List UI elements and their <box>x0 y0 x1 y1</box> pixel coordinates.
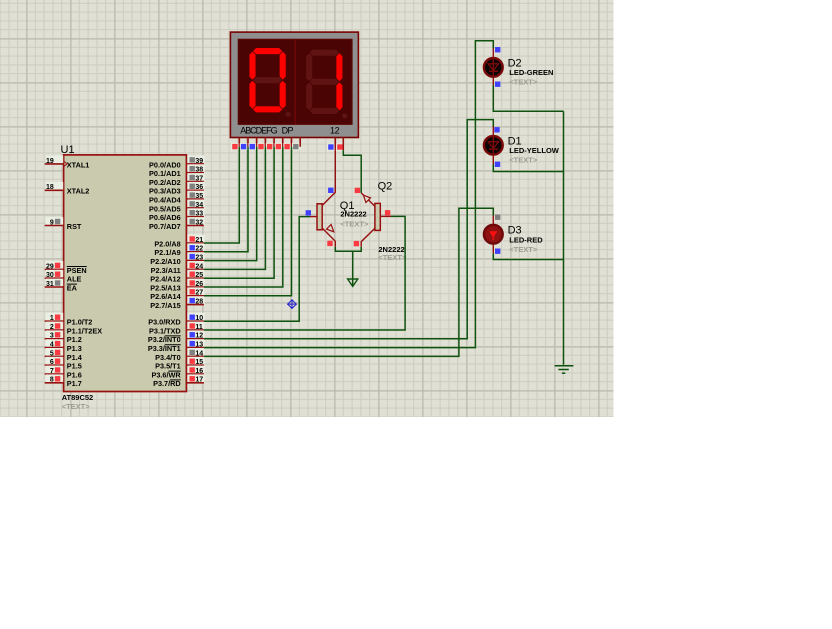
display pin 2 <box>336 138 344 151</box>
D2 text placeholder <box>509 78 538 87</box>
D3 reference label <box>508 224 522 236</box>
svg-text:P1.0/T2: P1.0/T2 <box>67 318 93 327</box>
wire D2 cathode to ground bus <box>493 85 563 111</box>
svg-text:19: 19 <box>46 158 54 165</box>
svg-text:3: 3 <box>50 333 54 340</box>
wire Q1 emitter / Q2 collector to ground node <box>335 247 361 252</box>
U1 pin 8 (P1.7) <box>45 374 82 388</box>
svg-text:17: 17 <box>195 377 203 384</box>
svg-text:<TEXT>: <TEXT> <box>509 78 538 87</box>
wire U1 P3.4 to D3 anode <box>204 208 493 356</box>
svg-text:35: 35 <box>195 193 203 200</box>
wire display C to U1 P2.2 <box>204 147 257 261</box>
wire D3 cathode to ground bus <box>493 253 563 259</box>
U1 pin 32 (P0.7/AD7) <box>149 217 205 231</box>
svg-text:P2.3/A11: P2.3/A11 <box>151 266 181 275</box>
U1 pin 5 (P1.4) <box>45 348 83 362</box>
svg-text:P2.4/A12: P2.4/A12 <box>150 275 180 284</box>
display digit 1 showing 0 <box>249 48 291 117</box>
svg-text:<TEXT>: <TEXT> <box>62 402 91 411</box>
svg-text:P2.7/A15: P2.7/A15 <box>150 301 180 310</box>
LED D2 anode pin <box>493 47 500 57</box>
LED D2 cathode pin <box>493 78 500 87</box>
XTAL1 clock marker <box>64 161 68 167</box>
svg-text:29: 29 <box>46 263 54 270</box>
LED D1 cathode pin <box>493 156 500 167</box>
wire U1 P3.1 to Q2 base <box>204 216 405 330</box>
svg-text:P2.0/A8: P2.0/A8 <box>154 239 180 248</box>
svg-text:P0.6/AD6: P0.6/AD6 <box>149 213 181 222</box>
display pin DP <box>292 138 300 151</box>
svg-text:P2.5/A13: P2.5/A13 <box>150 283 180 292</box>
display pin name labels <box>240 125 339 135</box>
svg-text:P3.6/WR: P3.6/WR <box>151 370 181 379</box>
wire display G to U1 P2.6 <box>204 147 292 296</box>
svg-text:12: 12 <box>195 333 203 340</box>
svg-text:P1.6: P1.6 <box>67 370 82 379</box>
svg-text:P1.1/T2EX: P1.1/T2EX <box>67 326 102 335</box>
svg-text:P3.2/INT0: P3.2/INT0 <box>148 335 181 344</box>
svg-text:P0.7/AD7: P0.7/AD7 <box>149 222 181 231</box>
svg-text:11: 11 <box>195 324 203 331</box>
Q2 text placeholder <box>378 253 407 262</box>
LED D1 anode pin <box>493 127 499 136</box>
wire display E to U1 P2.4 <box>204 147 274 278</box>
svg-text:2: 2 <box>50 324 54 331</box>
D2 reference label <box>508 57 522 69</box>
svg-text:Q2: Q2 <box>378 181 393 193</box>
LED D2 symbol <box>484 58 503 77</box>
svg-text:P1.5: P1.5 <box>67 362 82 371</box>
display pin B <box>240 138 248 151</box>
D1 text placeholder <box>509 155 538 164</box>
U1 pin 38 (P0.1/AD1) <box>149 164 205 178</box>
Q1 value 2N2222 <box>340 210 366 219</box>
svg-text:<TEXT>: <TEXT> <box>378 253 407 262</box>
svg-text:P0.1/AD1: P0.1/AD1 <box>149 169 181 178</box>
svg-text:XTAL2: XTAL2 <box>67 187 90 196</box>
svg-text:P3.4/T0: P3.4/T0 <box>155 353 181 362</box>
svg-text:18: 18 <box>46 184 54 191</box>
svg-text:P3.5/T1: P3.5/T1 <box>155 362 181 371</box>
svg-text:LED-RED: LED-RED <box>509 235 543 244</box>
D3 text placeholder <box>509 245 538 254</box>
transistor Q2 base bar <box>375 203 380 230</box>
svg-text:ABCDEFG: ABCDEFG <box>240 125 277 135</box>
display pin 1 <box>327 138 335 151</box>
svg-text:6: 6 <box>50 359 54 366</box>
svg-text:22: 22 <box>195 246 203 253</box>
U1 pin 26 (P2.5/A13) <box>150 279 204 293</box>
svg-text:5: 5 <box>50 350 54 357</box>
svg-text:RST: RST <box>67 222 82 231</box>
U1 pin 36 (P0.3/AD3) <box>149 182 205 196</box>
svg-text:P3.7/RD: P3.7/RD <box>153 379 181 388</box>
svg-text:1: 1 <box>50 315 54 322</box>
D3 value LED-RED <box>509 235 543 244</box>
display pin C <box>249 138 257 151</box>
LED D3 symbol <box>484 225 503 244</box>
svg-text:7: 7 <box>50 368 54 375</box>
origin marker node <box>287 299 297 309</box>
svg-text:28: 28 <box>195 299 203 306</box>
wire display B to U1 P2.1 <box>204 147 248 252</box>
wire U1 P3.2 to D1 anode <box>204 120 493 339</box>
svg-text:EA: EA <box>67 283 78 292</box>
ground arrow symbol <box>348 279 358 286</box>
Q1 emitter pin with arrow <box>322 225 335 247</box>
svg-text:P0.0/AD0: P0.0/AD0 <box>149 160 181 169</box>
display pin E <box>266 138 274 151</box>
svg-text:12: 12 <box>330 125 340 135</box>
Q2 base pin <box>380 210 391 216</box>
U1 pin 37 (P0.2/AD2) <box>149 173 205 187</box>
svg-text:P3.1/TXD: P3.1/TXD <box>149 326 181 335</box>
svg-text:P1.3: P1.3 <box>67 344 82 353</box>
U1 pin 11 (P3.1/TXD) <box>149 322 205 336</box>
svg-text:21: 21 <box>195 237 203 244</box>
ground symbol right <box>555 366 574 373</box>
Q1 collector pin <box>322 138 335 206</box>
U1 pin 33 (P0.6/AD6) <box>149 208 205 222</box>
Q1 base pin <box>306 210 318 216</box>
LED D1 symbol <box>484 136 503 155</box>
U1 pin 18 (XTAL2) <box>45 182 90 196</box>
U1 pin 6 (P1.5) <box>45 357 82 371</box>
svg-text:27: 27 <box>195 290 203 297</box>
wire U1 P3.0 to Q1 base <box>204 217 310 322</box>
svg-text:37: 37 <box>195 175 203 182</box>
display pin G <box>283 138 291 151</box>
U1 pin 17 (P3.7/RD) <box>153 374 204 388</box>
svg-text:<TEXT>: <TEXT> <box>509 245 538 254</box>
svg-text:XTAL1: XTAL1 <box>67 160 90 169</box>
LED D3 cathode pin <box>493 245 500 254</box>
display pin F <box>275 138 283 151</box>
Q1 text placeholder <box>340 219 369 228</box>
svg-text:24: 24 <box>195 263 203 270</box>
U1 pin 12 (P3.2/INT0) <box>148 330 205 344</box>
svg-text:9: 9 <box>50 219 54 226</box>
U1 pin 24 (P2.3/A11) <box>151 261 205 275</box>
U1 pin 34 (P0.5/AD5) <box>149 200 205 214</box>
U1 pin 19 (XTAL1) <box>45 156 90 170</box>
Q2 collector pin <box>354 228 375 247</box>
U1 value label AT89C52 <box>62 393 94 402</box>
svg-text:<TEXT>: <TEXT> <box>509 155 538 164</box>
U1 pin 23 (P2.2/A10) <box>150 252 204 266</box>
U1 pin 16 (P3.6/WR) <box>151 366 204 380</box>
wire U1 P3.3 to D2 anode <box>204 41 493 348</box>
svg-text:13: 13 <box>195 342 203 349</box>
D2 value LED-GREEN <box>509 68 553 77</box>
U1 pin 3 (P1.2) <box>45 330 82 344</box>
svg-text:P3.3/INT1: P3.3/INT1 <box>148 344 181 353</box>
svg-text:31: 31 <box>46 281 54 288</box>
U1 pin 27 (P2.6/A14) <box>150 287 204 301</box>
svg-text:10: 10 <box>195 315 203 322</box>
svg-text:ALE: ALE <box>67 275 82 284</box>
svg-text:P0.2/AD2: P0.2/AD2 <box>149 178 181 187</box>
svg-text:38: 38 <box>195 167 203 174</box>
U1 pin 4 (P1.3) <box>45 339 82 353</box>
U1 pin 30 (ALE) <box>45 270 82 284</box>
D1 reference label <box>508 135 522 147</box>
svg-text:<TEXT>: <TEXT> <box>340 219 369 228</box>
svg-text:39: 39 <box>195 158 203 165</box>
svg-text:32: 32 <box>195 219 203 226</box>
U1 pin 13 (P3.3/INT1) <box>148 339 205 353</box>
svg-text:8: 8 <box>50 377 54 384</box>
svg-text:30: 30 <box>46 272 54 279</box>
svg-text:DP: DP <box>282 125 294 135</box>
svg-text:P2.6/A14: P2.6/A14 <box>150 292 181 301</box>
U1 pin 22 (P2.1/A9) <box>154 243 204 257</box>
U1 pin 29 (PSEN) <box>45 261 87 275</box>
U1 pin 28 (P2.7/A15) <box>150 296 204 310</box>
transistor Q1 base bar <box>317 204 322 230</box>
7-segment display frame <box>230 32 358 137</box>
svg-text:36: 36 <box>195 184 203 191</box>
U1 reference label <box>61 144 75 156</box>
Q2 emitter pin with arrow <box>355 188 375 207</box>
D1 value LED-YELLOW <box>509 146 559 155</box>
U1 pin 39 (P0.0/AD0) <box>149 156 205 170</box>
display pin A <box>231 138 239 151</box>
svg-text:P1.4: P1.4 <box>67 353 83 362</box>
svg-text:LED-YELLOW: LED-YELLOW <box>509 146 559 155</box>
LED D3 anode pin <box>493 215 500 224</box>
U1 pin 25 (P2.4/A12) <box>150 270 204 284</box>
wire D1 cathode to ground bus <box>493 165 563 172</box>
MCU U1 AT89C52 body <box>64 155 187 392</box>
U1 pin 35 (P0.4/AD4) <box>149 191 205 205</box>
U1 pin 7 (P1.6) <box>45 366 82 380</box>
svg-text:P3.0/RXD: P3.0/RXD <box>148 318 180 327</box>
Q2 value 2N2222 <box>378 245 404 254</box>
svg-text:15: 15 <box>195 359 203 366</box>
wire display D to U1 P2.3 <box>204 147 266 270</box>
U1 pin 14 (P3.4/T0) <box>155 348 204 362</box>
svg-text:2N2222: 2N2222 <box>340 210 366 219</box>
U1 pin 1 (P1.0/T2) <box>45 313 93 327</box>
svg-text:4: 4 <box>50 342 54 349</box>
U1 pin 9 (RST) <box>45 217 82 231</box>
wire display pin2 to Q2 emitter <box>343 150 361 193</box>
svg-text:LED-GREEN: LED-GREEN <box>509 68 553 77</box>
svg-text:P2.1/A9: P2.1/A9 <box>154 248 180 257</box>
svg-text:P1.2: P1.2 <box>67 335 82 344</box>
svg-text:P0.4/AD4: P0.4/AD4 <box>149 196 182 205</box>
wire ground node drop <box>352 251 354 286</box>
U1 pin 2 (P1.1/T2EX) <box>45 322 103 336</box>
svg-text:P0.3/AD3: P0.3/AD3 <box>149 187 181 196</box>
svg-text:16: 16 <box>195 368 203 375</box>
svg-text:25: 25 <box>195 272 203 279</box>
svg-text:AT89C52: AT89C52 <box>62 393 94 402</box>
svg-text:PSEN: PSEN <box>67 266 87 275</box>
U1 pin 31 (EA) <box>45 279 78 293</box>
Q1 reference label <box>340 200 355 212</box>
svg-text:U1: U1 <box>61 144 75 156</box>
svg-text:P0.5/AD5: P0.5/AD5 <box>149 204 181 213</box>
svg-text:26: 26 <box>195 281 203 288</box>
svg-text:14: 14 <box>195 350 203 357</box>
svg-text:34: 34 <box>195 202 203 209</box>
U1 pin 15 (P3.5/T1) <box>155 357 204 371</box>
U1 pin 10 (P3.0/RXD) <box>148 313 204 327</box>
svg-text:23: 23 <box>195 255 203 262</box>
U1 pin 21 (P2.0/A8) <box>154 235 204 249</box>
wire display F to U1 P2.5 <box>204 147 283 287</box>
U1 text placeholder <box>62 402 91 411</box>
Q2 reference label <box>378 181 393 193</box>
display digit 2 showing 1 <box>306 49 348 118</box>
svg-text:33: 33 <box>195 211 203 218</box>
svg-text:P2.2/A10: P2.2/A10 <box>150 257 180 266</box>
display pin D <box>257 138 265 151</box>
svg-text:P1.7: P1.7 <box>67 379 82 388</box>
wire display A to U1 P2.0 <box>204 147 239 243</box>
wire ground bus vertical <box>563 111 565 365</box>
